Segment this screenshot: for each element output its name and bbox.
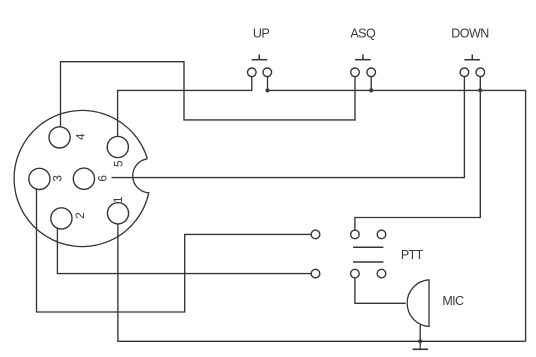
switch UP actuator [252, 59, 268, 61]
switch DOWN contacts [460, 68, 469, 77]
microphone element MIC [407, 280, 429, 327]
wire PTT bottom-left contact to MIC [355, 278, 406, 303]
svg-text:ASQ: ASQ [350, 26, 376, 40]
PTT lower terminal [311, 269, 320, 278]
junction dot UP bus [265, 88, 269, 92]
svg-text:DOWN: DOWN [451, 26, 489, 40]
pin 1 [107, 203, 128, 224]
wire MIC to ground bus [419, 325, 421, 341]
wire UP right contact stem [267, 77, 269, 91]
switch DOWN actuator [464, 59, 480, 61]
wire pin6 to DOWN left contact [112, 77, 465, 178]
svg-text:MIC: MIC [442, 294, 464, 308]
wire pin1 to ground bus [118, 224, 526, 341]
wire pin5 to UP left contact [118, 77, 252, 137]
svg-text:4: 4 [74, 133, 88, 140]
switch ASQ actuator [355, 59, 371, 61]
wire pin2 to PTT lower terminal [57, 228, 311, 273]
junction dot DOWN bus [478, 88, 482, 92]
pin 6 [73, 168, 94, 189]
ground symbol [419, 341, 421, 349]
svg-text:2: 2 [73, 212, 87, 219]
svg-text:1: 1 [111, 196, 125, 203]
wire pin4 to ASQ left contact [61, 62, 356, 127]
pin 4 [49, 127, 70, 148]
junction dot ASQ bus [369, 88, 373, 92]
wire ASQ right contact stem [370, 77, 372, 91]
junction dot MIC ground [418, 339, 422, 343]
wire pin3 to PTT upper terminal [37, 190, 312, 313]
pin 2 [51, 208, 72, 229]
wire DOWN right contact to PTT top-left contact [355, 77, 480, 231]
svg-text:5: 5 [112, 160, 126, 167]
connector J1 outline with keyway notch [14, 110, 149, 246]
pin 3 [29, 168, 50, 189]
PTT upper terminal [311, 230, 320, 239]
switch ASQ contacts [351, 68, 360, 77]
pin 5 [107, 136, 128, 157]
svg-text:UP: UP [253, 26, 270, 40]
svg-text:3: 3 [51, 175, 65, 182]
switch PTT contacts [351, 230, 360, 239]
switch PTT actuator bars [353, 246, 383, 248]
svg-text:PTT: PTT [401, 248, 424, 262]
svg-text:6: 6 [95, 175, 109, 182]
switch UP contacts [248, 68, 257, 77]
wire common bus UP/ASQ/DOWN to right edge down to ground bus [268, 90, 526, 341]
